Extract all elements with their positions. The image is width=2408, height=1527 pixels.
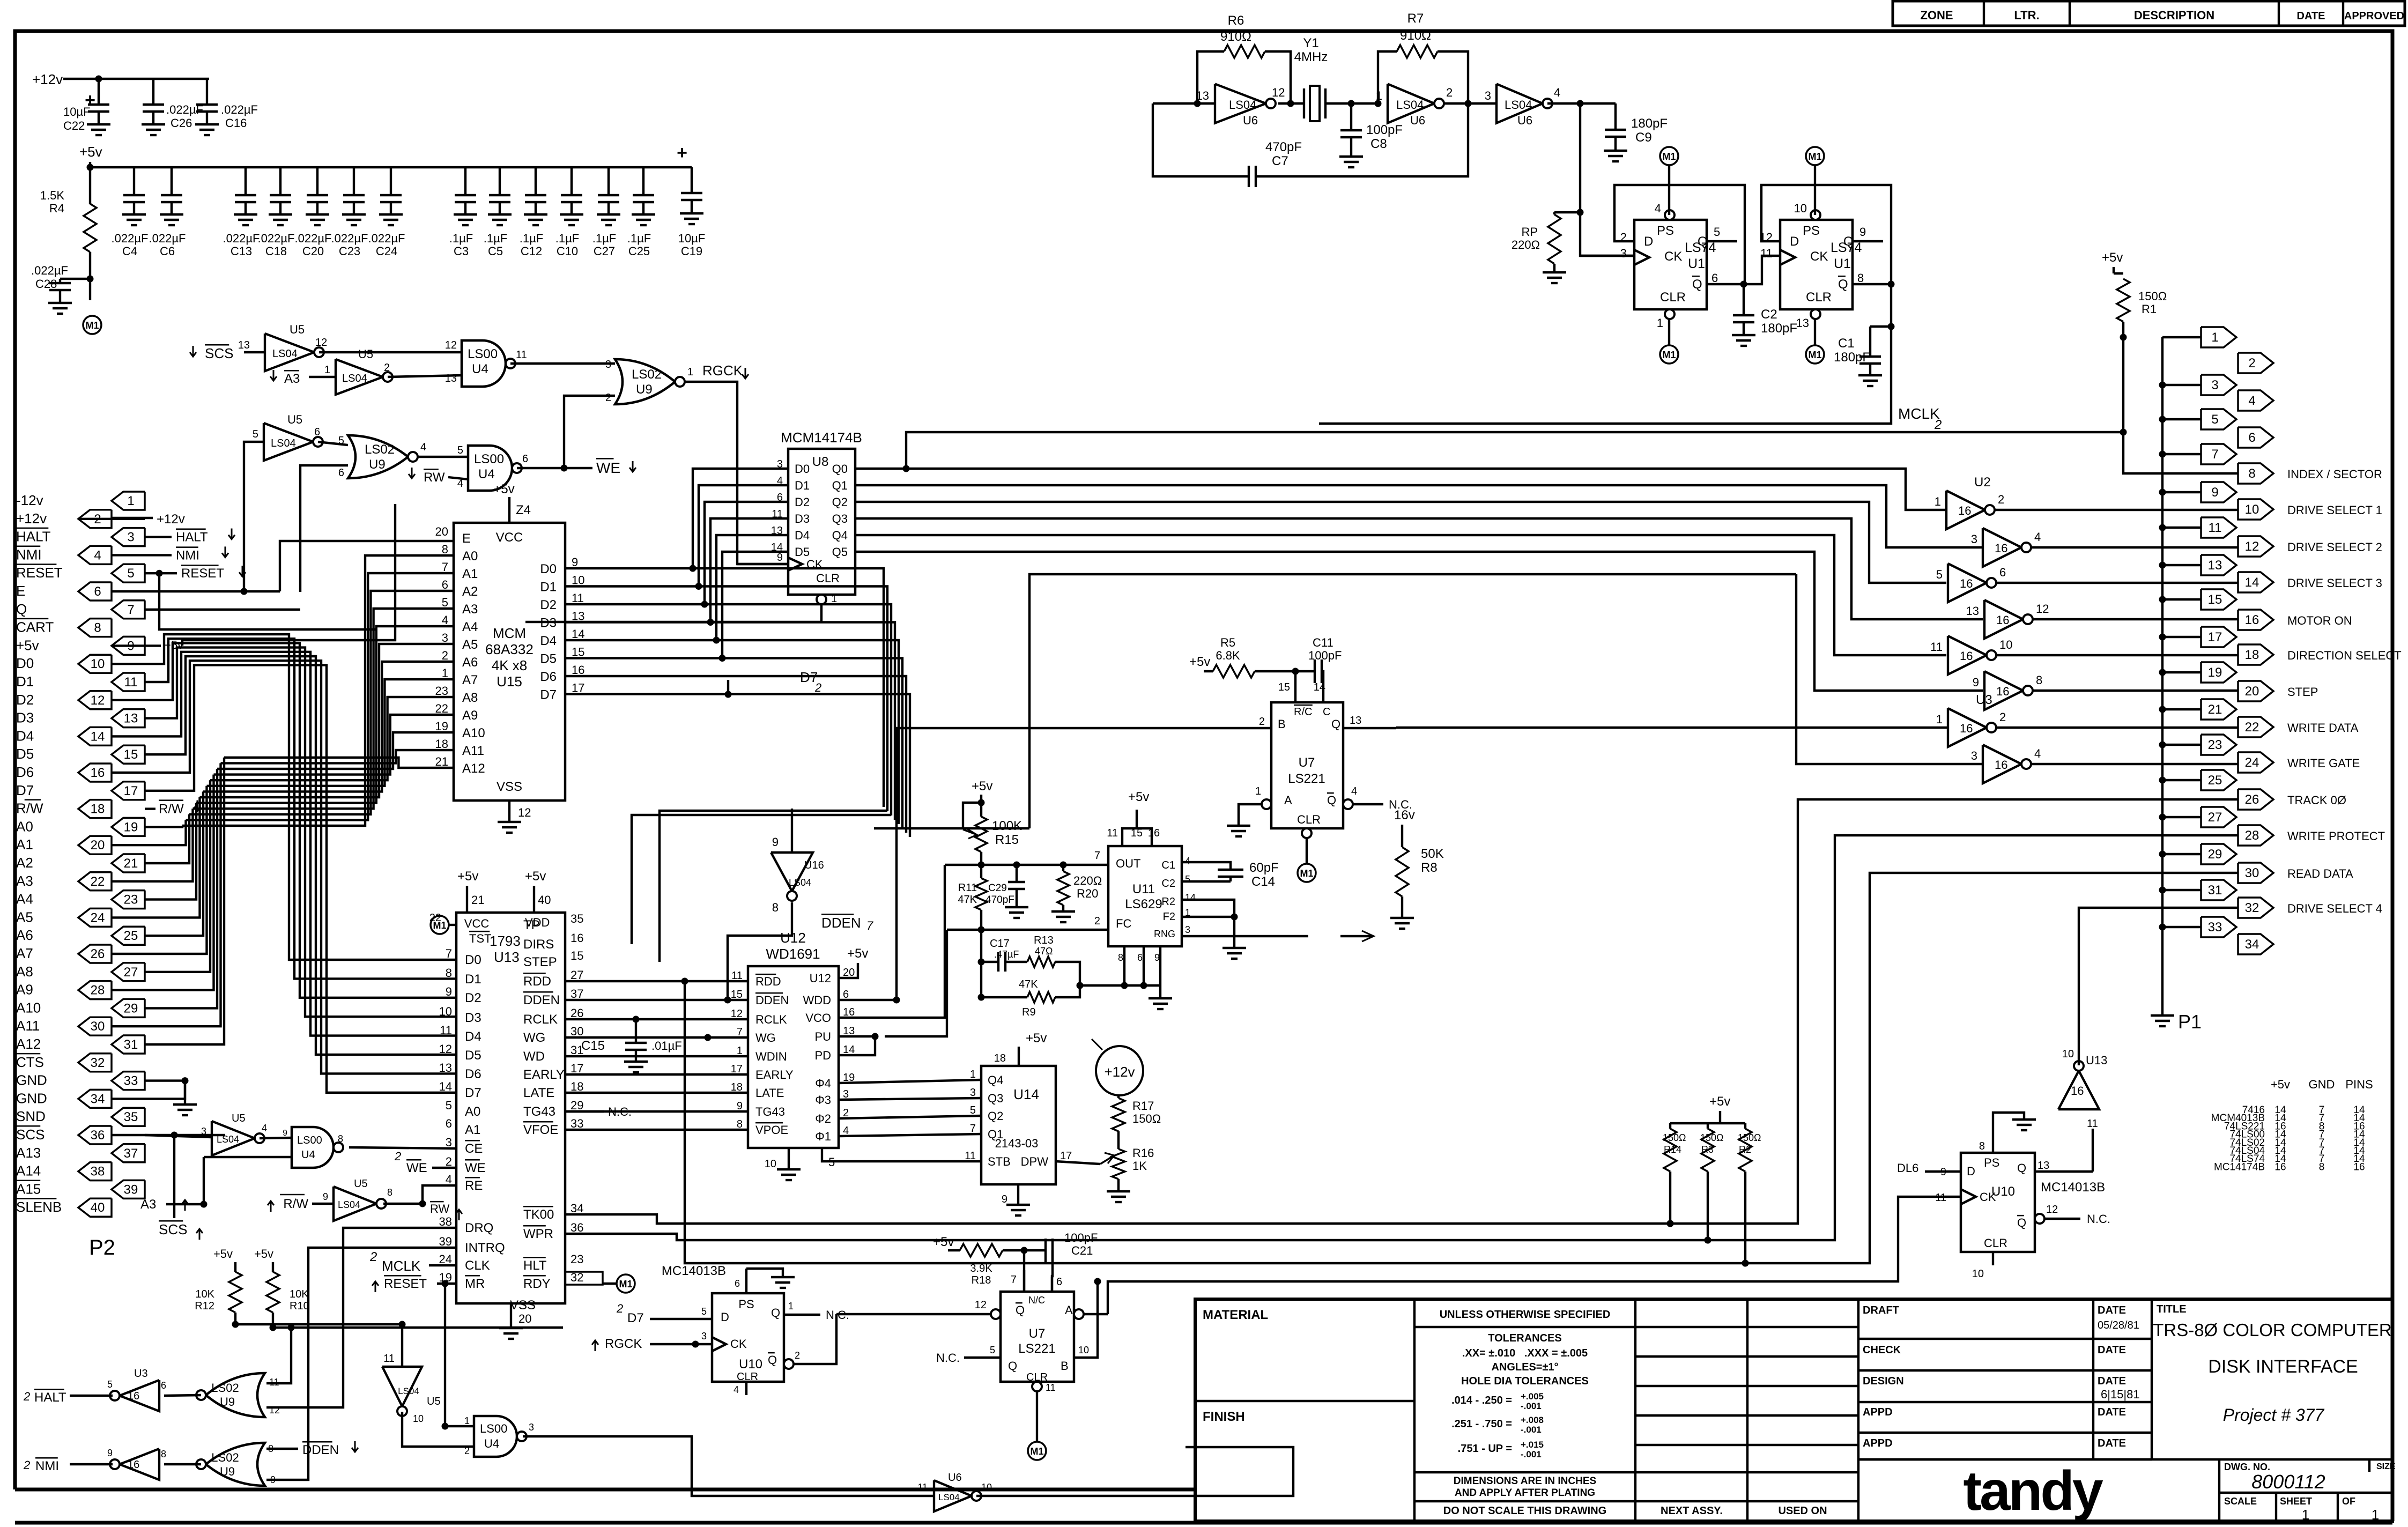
svg-text:RESET: RESET: [181, 566, 224, 581]
svg-text:C9: C9: [1635, 130, 1652, 145]
capacitor C23: [331, 167, 368, 258]
svg-text:D0: D0: [465, 953, 481, 967]
wire to RP and CK: [1577, 103, 1634, 256]
driver inverter 7416 3->4: [1971, 528, 2041, 567]
svg-text:LS221: LS221: [1018, 1341, 1055, 1356]
connector P2 pin 28 A9: [16, 981, 112, 999]
svg-text:APPD: APPD: [1863, 1437, 1893, 1449]
svg-text:U4: U4: [484, 1437, 499, 1450]
svg-text:A12: A12: [16, 1036, 41, 1052]
svg-text:tandy: tandy: [1963, 1460, 2103, 1522]
svg-text:12: 12: [1272, 86, 1285, 99]
connector P1 pin 29: [2201, 844, 2236, 864]
mounting hole M1: [1660, 319, 1678, 364]
svg-text:TP: TP: [523, 918, 540, 932]
svg-text:17: 17: [2208, 630, 2222, 644]
svg-text:LS04: LS04: [789, 877, 811, 888]
resistor R18 3.9K: [933, 1235, 1027, 1292]
svg-text:36: 36: [91, 1128, 105, 1143]
svg-text:A11: A11: [462, 744, 484, 758]
svg-text:27: 27: [2208, 810, 2222, 825]
svg-text:STEP: STEP: [2287, 685, 2318, 699]
svg-text:180pF: 180pF: [1834, 350, 1870, 365]
svg-text:+12v: +12v: [16, 510, 47, 527]
svg-text:3: 3: [605, 359, 611, 370]
svg-text:39: 39: [124, 1182, 138, 1197]
connector P1 pin 4: [2238, 390, 2273, 411]
svg-text:1: 1: [2302, 1507, 2309, 1523]
svg-text:U13: U13: [2086, 1054, 2107, 1067]
svg-text:A4: A4: [16, 891, 33, 907]
svg-text:.022µF: .022µF: [223, 232, 260, 245]
svg-text:7: 7: [442, 560, 448, 574]
svg-text:5: 5: [990, 1345, 995, 1355]
connector P1 pin 15: [2201, 589, 2236, 610]
svg-text:D: D: [721, 1310, 729, 1324]
svg-text:D5: D5: [795, 545, 810, 559]
svg-text:LS04: LS04: [338, 1199, 360, 1210]
svg-text:DISK INTERFACE: DISK INTERFACE: [2208, 1356, 2358, 1377]
svg-text:CK: CK: [1980, 1190, 1996, 1204]
VCO U11 LS629 box: [1108, 846, 1182, 946]
svg-text:220Ω: 220Ω: [1512, 238, 1540, 251]
svg-text:D2: D2: [465, 991, 481, 1005]
svg-text:READ DATA: READ DATA: [2287, 867, 2353, 880]
svg-text:Q: Q: [1008, 1359, 1017, 1373]
U10 D input: [1897, 1161, 1961, 1175]
inverter U16 LS04 DDEN: [728, 809, 824, 1000]
resistor R12 10K: [195, 1247, 242, 1328]
connector P2 pin 19 A0: [16, 818, 145, 836]
svg-text:A8: A8: [462, 691, 478, 705]
svg-text:DDEN: DDEN: [755, 994, 789, 1007]
svg-text:U5: U5: [427, 1396, 441, 1407]
svg-text:A6: A6: [16, 927, 33, 943]
svg-text:R7: R7: [1407, 11, 1424, 26]
svg-text:1: 1: [442, 666, 448, 680]
svg-text:26: 26: [2245, 792, 2259, 807]
connector P2 pin 24 A5: [16, 908, 112, 926]
mounting hole M1: [1806, 147, 1824, 215]
svg-text:19: 19: [124, 820, 138, 834]
svg-text:9: 9: [772, 835, 779, 849]
svg-text:21: 21: [2208, 702, 2222, 717]
resistor R6 910Ω feedback: [1197, 13, 1294, 107]
svg-text:14: 14: [843, 1044, 855, 1056]
svg-text:CK: CK: [1664, 249, 1682, 264]
svg-text:9: 9: [1973, 676, 1979, 689]
svg-text:2: 2: [446, 1155, 452, 1168]
+12v power rail: [32, 71, 209, 110]
wire: [1278, 102, 1304, 105]
svg-text:16: 16: [843, 1006, 855, 1018]
label RGCK: [702, 362, 749, 379]
svg-text:MR: MR: [465, 1277, 485, 1291]
svg-text:35: 35: [124, 1110, 138, 1124]
svg-text:3: 3: [1620, 247, 1627, 260]
capacitor C20: [295, 167, 332, 258]
svg-text:FINISH: FINISH: [1203, 1410, 1245, 1424]
U10b CLR: [733, 1382, 746, 1395]
svg-text:DDEN: DDEN: [821, 915, 861, 931]
svg-text:MCM14174B: MCM14174B: [781, 429, 862, 446]
svg-text:4: 4: [442, 613, 448, 627]
svg-text:4MHz: 4MHz: [1294, 50, 1328, 64]
svg-text:+: +: [677, 143, 687, 163]
svg-text:1: 1: [324, 364, 330, 376]
svg-text:LS221: LS221: [1288, 772, 1325, 786]
svg-text:23: 23: [570, 1252, 583, 1266]
driver inverter U2 1->2: [1935, 475, 2005, 529]
svg-text:.1µF: .1µF: [449, 232, 473, 245]
svg-text:DATE: DATE: [2098, 1375, 2126, 1387]
svg-text:20: 20: [843, 967, 855, 979]
svg-text:Q2: Q2: [988, 1109, 1003, 1123]
svg-text:7: 7: [1011, 1274, 1017, 1286]
connector P1 pin 17: [2201, 627, 2236, 647]
wire index/sector net: [2120, 334, 2238, 473]
svg-text:D1: D1: [795, 479, 810, 492]
svg-text:2: 2: [1259, 716, 1265, 728]
svg-text:20: 20: [518, 1312, 531, 1325]
svg-text:F2: F2: [1163, 911, 1175, 923]
svg-text:U11: U11: [1132, 882, 1155, 896]
connector P1 pin 28: [2238, 825, 2385, 846]
svg-text:LS00: LS00: [474, 452, 504, 466]
connector P1 pin 7: [2201, 444, 2236, 464]
svg-text:U9: U9: [369, 457, 386, 472]
connector P2 pin 18 R/W: [16, 800, 112, 818]
svg-text:M1: M1: [1300, 868, 1313, 879]
connector P2 pin 38 A14: [16, 1162, 112, 1181]
wire U9d input9: [266, 1248, 456, 1480]
connector P1 pin 3: [2201, 375, 2236, 395]
svg-text:Q: Q: [1843, 234, 1854, 249]
svg-text:U15: U15: [497, 673, 522, 690]
capacitor C16: [195, 79, 258, 135]
driver inverter 7416 13->12: [1966, 600, 2049, 639]
svg-text:10K: 10K: [195, 1288, 214, 1300]
connector P2 pin 29 A10: [16, 999, 145, 1017]
connector P2 pin 3 HALT: [16, 528, 145, 546]
svg-text:.XX= ±.010 .XXX = ±.005: .XX= ±.010 .XXX = ±.005: [1462, 1347, 1588, 1359]
nand U4d LS00: [201, 1127, 456, 1207]
svg-text:15: 15: [572, 646, 584, 659]
svg-text:C24: C24: [376, 244, 397, 258]
svg-text:EARLY: EARLY: [755, 1068, 794, 1081]
svg-text:47K: 47K: [1019, 979, 1038, 990]
svg-text:TG43: TG43: [523, 1105, 555, 1119]
svg-text:1: 1: [127, 494, 134, 508]
inverter U5c LS04: [253, 413, 323, 461]
svg-text:3: 3: [701, 1331, 707, 1341]
svg-text:M1: M1: [85, 320, 99, 331]
svg-text:VPOE: VPOE: [755, 1123, 788, 1137]
svg-text:Z4: Z4: [516, 503, 531, 517]
svg-text:10µF: 10µF: [678, 232, 706, 245]
svg-text:LS04: LS04: [342, 373, 367, 384]
svg-text:12: 12: [91, 693, 105, 708]
svg-text:LS04: LS04: [1505, 98, 1532, 112]
svg-text:A: A: [1284, 794, 1292, 807]
svg-text:35: 35: [570, 912, 583, 925]
capacitor C14 60pF: [1182, 861, 1279, 889]
svg-text:10: 10: [981, 1482, 992, 1493]
capacitor C12: [520, 167, 547, 258]
svg-text:Q: Q: [768, 1353, 777, 1367]
svg-text:150Ω: 150Ω: [1700, 1132, 1724, 1143]
svg-text:NMI: NMI: [176, 548, 199, 562]
svg-text:MCLK: MCLK: [382, 1258, 421, 1274]
svg-text:10: 10: [1794, 202, 1807, 215]
label RESET at MR: [372, 1276, 456, 1426]
svg-text:16: 16: [2245, 613, 2259, 627]
svg-text:A7: A7: [462, 673, 478, 687]
svg-text:P2: P2: [89, 1236, 115, 1259]
svg-text:6|15|81: 6|15|81: [2101, 1388, 2140, 1401]
svg-text:C25: C25: [628, 244, 650, 258]
svg-text:.01µF: .01µF: [651, 1039, 682, 1052]
svg-text:U8: U8: [812, 455, 829, 469]
svg-text:1: 1: [970, 1069, 976, 1080]
svg-text:3: 3: [1485, 89, 1491, 102]
svg-text:4: 4: [262, 1123, 267, 1133]
U1b feedback wire Qbar to D: [1761, 185, 1894, 287]
svg-text:WRITE DATA: WRITE DATA: [2287, 721, 2359, 735]
svg-text:M1: M1: [1662, 151, 1676, 162]
scale sheet row: [2224, 1493, 2379, 1523]
svg-text:WG: WG: [755, 1031, 776, 1044]
svg-text:R13: R13: [1034, 935, 1054, 946]
svg-text:NMI: NMI: [35, 1459, 59, 1473]
resistor R14 150Ω: [1663, 1129, 1686, 1227]
svg-text:U4: U4: [301, 1149, 315, 1161]
svg-text:8: 8: [442, 543, 448, 556]
svg-text:D6: D6: [540, 670, 557, 684]
wire bus D to U8: [690, 469, 788, 662]
svg-text:LS04: LS04: [398, 1386, 419, 1396]
U14 left pin labels: [965, 1069, 1011, 1168]
connector P2 pin 22 A3: [16, 872, 112, 891]
svg-text:29: 29: [2208, 847, 2222, 862]
connector P2 pin 35 SND: [16, 1108, 145, 1126]
wire U9c inputs: [266, 1228, 456, 1407]
svg-text:8: 8: [1979, 1140, 1985, 1152]
connector P2 pin 23 A4: [16, 891, 145, 909]
connector P2 pin 33 GND: [16, 1072, 145, 1090]
inverter U6b LS04: [1376, 84, 1453, 128]
svg-text:5: 5: [107, 1379, 113, 1390]
svg-text:C1: C1: [1161, 859, 1175, 871]
svg-text:11: 11: [2087, 1118, 2098, 1130]
svg-text:DDEN: DDEN: [523, 993, 560, 1007]
svg-text:4: 4: [2248, 394, 2255, 408]
svg-text:+5v: +5v: [525, 869, 546, 884]
svg-text:23: 23: [124, 893, 138, 907]
register U8 MCM14174B box: [781, 429, 862, 595]
svg-text:C1: C1: [1838, 336, 1855, 351]
svg-text:FC: FC: [1116, 917, 1131, 930]
svg-text:47K: 47K: [958, 894, 977, 906]
svg-text:WRITE PROTECT: WRITE PROTECT: [2287, 829, 2385, 843]
mounting hole M1: [1806, 319, 1824, 364]
svg-text:16: 16: [1960, 649, 1973, 663]
svg-text:C2: C2: [1761, 307, 1777, 322]
svg-text:18: 18: [994, 1052, 1006, 1064]
svg-text:16: 16: [1995, 542, 2007, 555]
svg-text:APPROVED: APPROVED: [2344, 10, 2404, 22]
svg-text:AND APPLY AFTER PLATING: AND APPLY AFTER PLATING: [1455, 1487, 1595, 1499]
svg-text:R18: R18: [972, 1274, 991, 1286]
svg-text:1: 1: [1255, 785, 1261, 797]
svg-text:E: E: [16, 583, 25, 599]
svg-text:3: 3: [2211, 378, 2218, 392]
connector P2 pin 17 D7: [16, 782, 145, 800]
svg-text:C10: C10: [557, 244, 578, 258]
svg-text:A2: A2: [16, 855, 33, 871]
connector P2 pin 39 A15: [16, 1180, 145, 1198]
svg-text:PS: PS: [1803, 224, 1820, 238]
svg-text:10: 10: [2245, 502, 2259, 517]
wire U12 STB: [822, 1148, 981, 1161]
svg-text:D0: D0: [795, 462, 810, 476]
svg-text:4K x8: 4K x8: [492, 657, 528, 673]
U14 +5v: [994, 1031, 1047, 1066]
svg-text:ZONE: ZONE: [1920, 9, 1953, 22]
U13 ground loop: [0, 0, 1, 1]
svg-text:68A332: 68A332: [485, 641, 534, 657]
svg-text:GND: GND: [16, 1090, 47, 1106]
resistor R9 47K: [981, 979, 1083, 1018]
wire +5v pin9: [112, 504, 395, 651]
svg-text:INTRQ: INTRQ: [465, 1241, 505, 1255]
svg-text:12: 12: [975, 1299, 987, 1311]
connector P1 pin 34: [2238, 934, 2273, 954]
svg-text:10: 10: [1999, 638, 2012, 651]
svg-text:.751 - UP =: .751 - UP =: [1458, 1443, 1512, 1455]
flip-flop U10 MC14013B box: [1961, 1153, 2035, 1252]
label D7 zone: [800, 669, 821, 694]
svg-text:TG43: TG43: [755, 1105, 785, 1118]
svg-text:.1µF: .1µF: [484, 232, 507, 245]
svg-text:WE: WE: [596, 459, 620, 476]
svg-text:12: 12: [315, 337, 327, 349]
svg-text:9: 9: [572, 555, 578, 569]
svg-text:10K: 10K: [290, 1288, 309, 1300]
label RW in: [409, 468, 468, 485]
connector P1 pin 8: [2238, 463, 2382, 484]
wire bus ROM D0-D7: [565, 568, 910, 962]
nor U9d LS02 left: [164, 1443, 276, 1486]
driver inverter 7416 9->8: [1973, 671, 2043, 710]
svg-text:.022µF: .022µF: [31, 264, 68, 277]
capacitor C18: [258, 167, 295, 258]
flip-flop U10b MC14013B box: [712, 1293, 784, 1383]
svg-text:RP: RP: [1521, 225, 1538, 239]
+12v source circle: [1092, 1039, 1143, 1095]
svg-text:U9: U9: [636, 382, 653, 397]
svg-text:1: 1: [831, 593, 837, 605]
svg-text:B: B: [1278, 717, 1286, 731]
svg-text:4: 4: [733, 1384, 739, 1395]
svg-text:+.008: +.008: [1521, 1415, 1544, 1425]
svg-text:23: 23: [435, 684, 448, 698]
svg-text:11: 11: [1107, 827, 1118, 839]
dwg no cell: [2219, 1459, 2396, 1493]
connector P2 pin 27 A8: [16, 963, 145, 981]
svg-text:38: 38: [91, 1165, 105, 1179]
svg-text:R/C: R/C: [1294, 706, 1312, 718]
svg-text:D4: D4: [540, 634, 557, 648]
svg-text:22: 22: [435, 702, 448, 715]
svg-text:SCS: SCS: [16, 1126, 45, 1143]
svg-text:A5: A5: [16, 909, 33, 925]
svg-text:27: 27: [124, 965, 138, 980]
U11 right pins: [1154, 856, 1196, 939]
capacitor C6: [149, 167, 186, 258]
svg-text:SCS: SCS: [205, 345, 233, 361]
svg-text:4: 4: [420, 441, 426, 453]
svg-text:Q: Q: [2017, 1161, 2026, 1175]
svg-text:220Ω: 220Ω: [1073, 874, 1102, 887]
svg-text:60pF: 60pF: [1249, 861, 1279, 875]
capacitor C28: [31, 264, 90, 314]
register U8 CLR bubble: [525, 593, 837, 622]
svg-text:R/W: R/W: [16, 800, 43, 817]
label A3 in: [270, 370, 336, 386]
svg-text:STB: STB: [988, 1155, 1011, 1168]
driver inverter U3 1->2: [1936, 693, 2006, 747]
svg-text:D6: D6: [16, 764, 34, 780]
U12 pin5 label: [828, 1155, 835, 1169]
capacitor C27: [592, 167, 620, 258]
svg-text:SCS: SCS: [159, 1221, 187, 1237]
svg-text:R/W: R/W: [159, 802, 184, 817]
svg-text:10: 10: [2062, 1048, 2074, 1060]
svg-text:18: 18: [731, 1081, 743, 1093]
svg-text:11: 11: [572, 591, 584, 605]
svg-text:LS02: LS02: [632, 367, 662, 382]
svg-text:U6: U6: [948, 1472, 962, 1484]
svg-text:38: 38: [439, 1215, 452, 1228]
svg-text:31: 31: [2208, 883, 2222, 898]
resistor R20 220Ω: [1051, 862, 1102, 922]
capacitor C22: [63, 79, 110, 135]
wire bottom long lines: [0, 0, 1, 1]
svg-text:Φ4: Φ4: [815, 1077, 831, 1090]
svg-text:13: 13: [2208, 558, 2222, 573]
svg-text:TITLE: TITLE: [2157, 1303, 2187, 1315]
svg-text:C16: C16: [225, 116, 247, 130]
svg-text:11: 11: [124, 675, 138, 690]
svg-text:RCLK: RCLK: [523, 1012, 558, 1027]
label HALT zone2: [23, 1389, 66, 1405]
svg-text:R5: R5: [1220, 636, 1235, 649]
label A3 tap: [140, 1197, 204, 1212]
svg-text:C5: C5: [488, 244, 503, 258]
svg-text:16: 16: [1960, 577, 1973, 590]
wire D7 stub: [725, 680, 731, 698]
wire: [1444, 100, 1496, 107]
flip-flop U1a LS74: [1620, 202, 1721, 330]
svg-text:MATERIAL: MATERIAL: [1203, 1308, 1268, 1322]
svg-text:9: 9: [2211, 485, 2218, 500]
svg-text:13: 13: [2037, 1160, 2049, 1172]
svg-text:D3: D3: [16, 710, 34, 726]
svg-text:6: 6: [94, 584, 101, 599]
svg-text:LS02: LS02: [211, 1381, 239, 1395]
svg-text:+5v: +5v: [2102, 250, 2123, 265]
